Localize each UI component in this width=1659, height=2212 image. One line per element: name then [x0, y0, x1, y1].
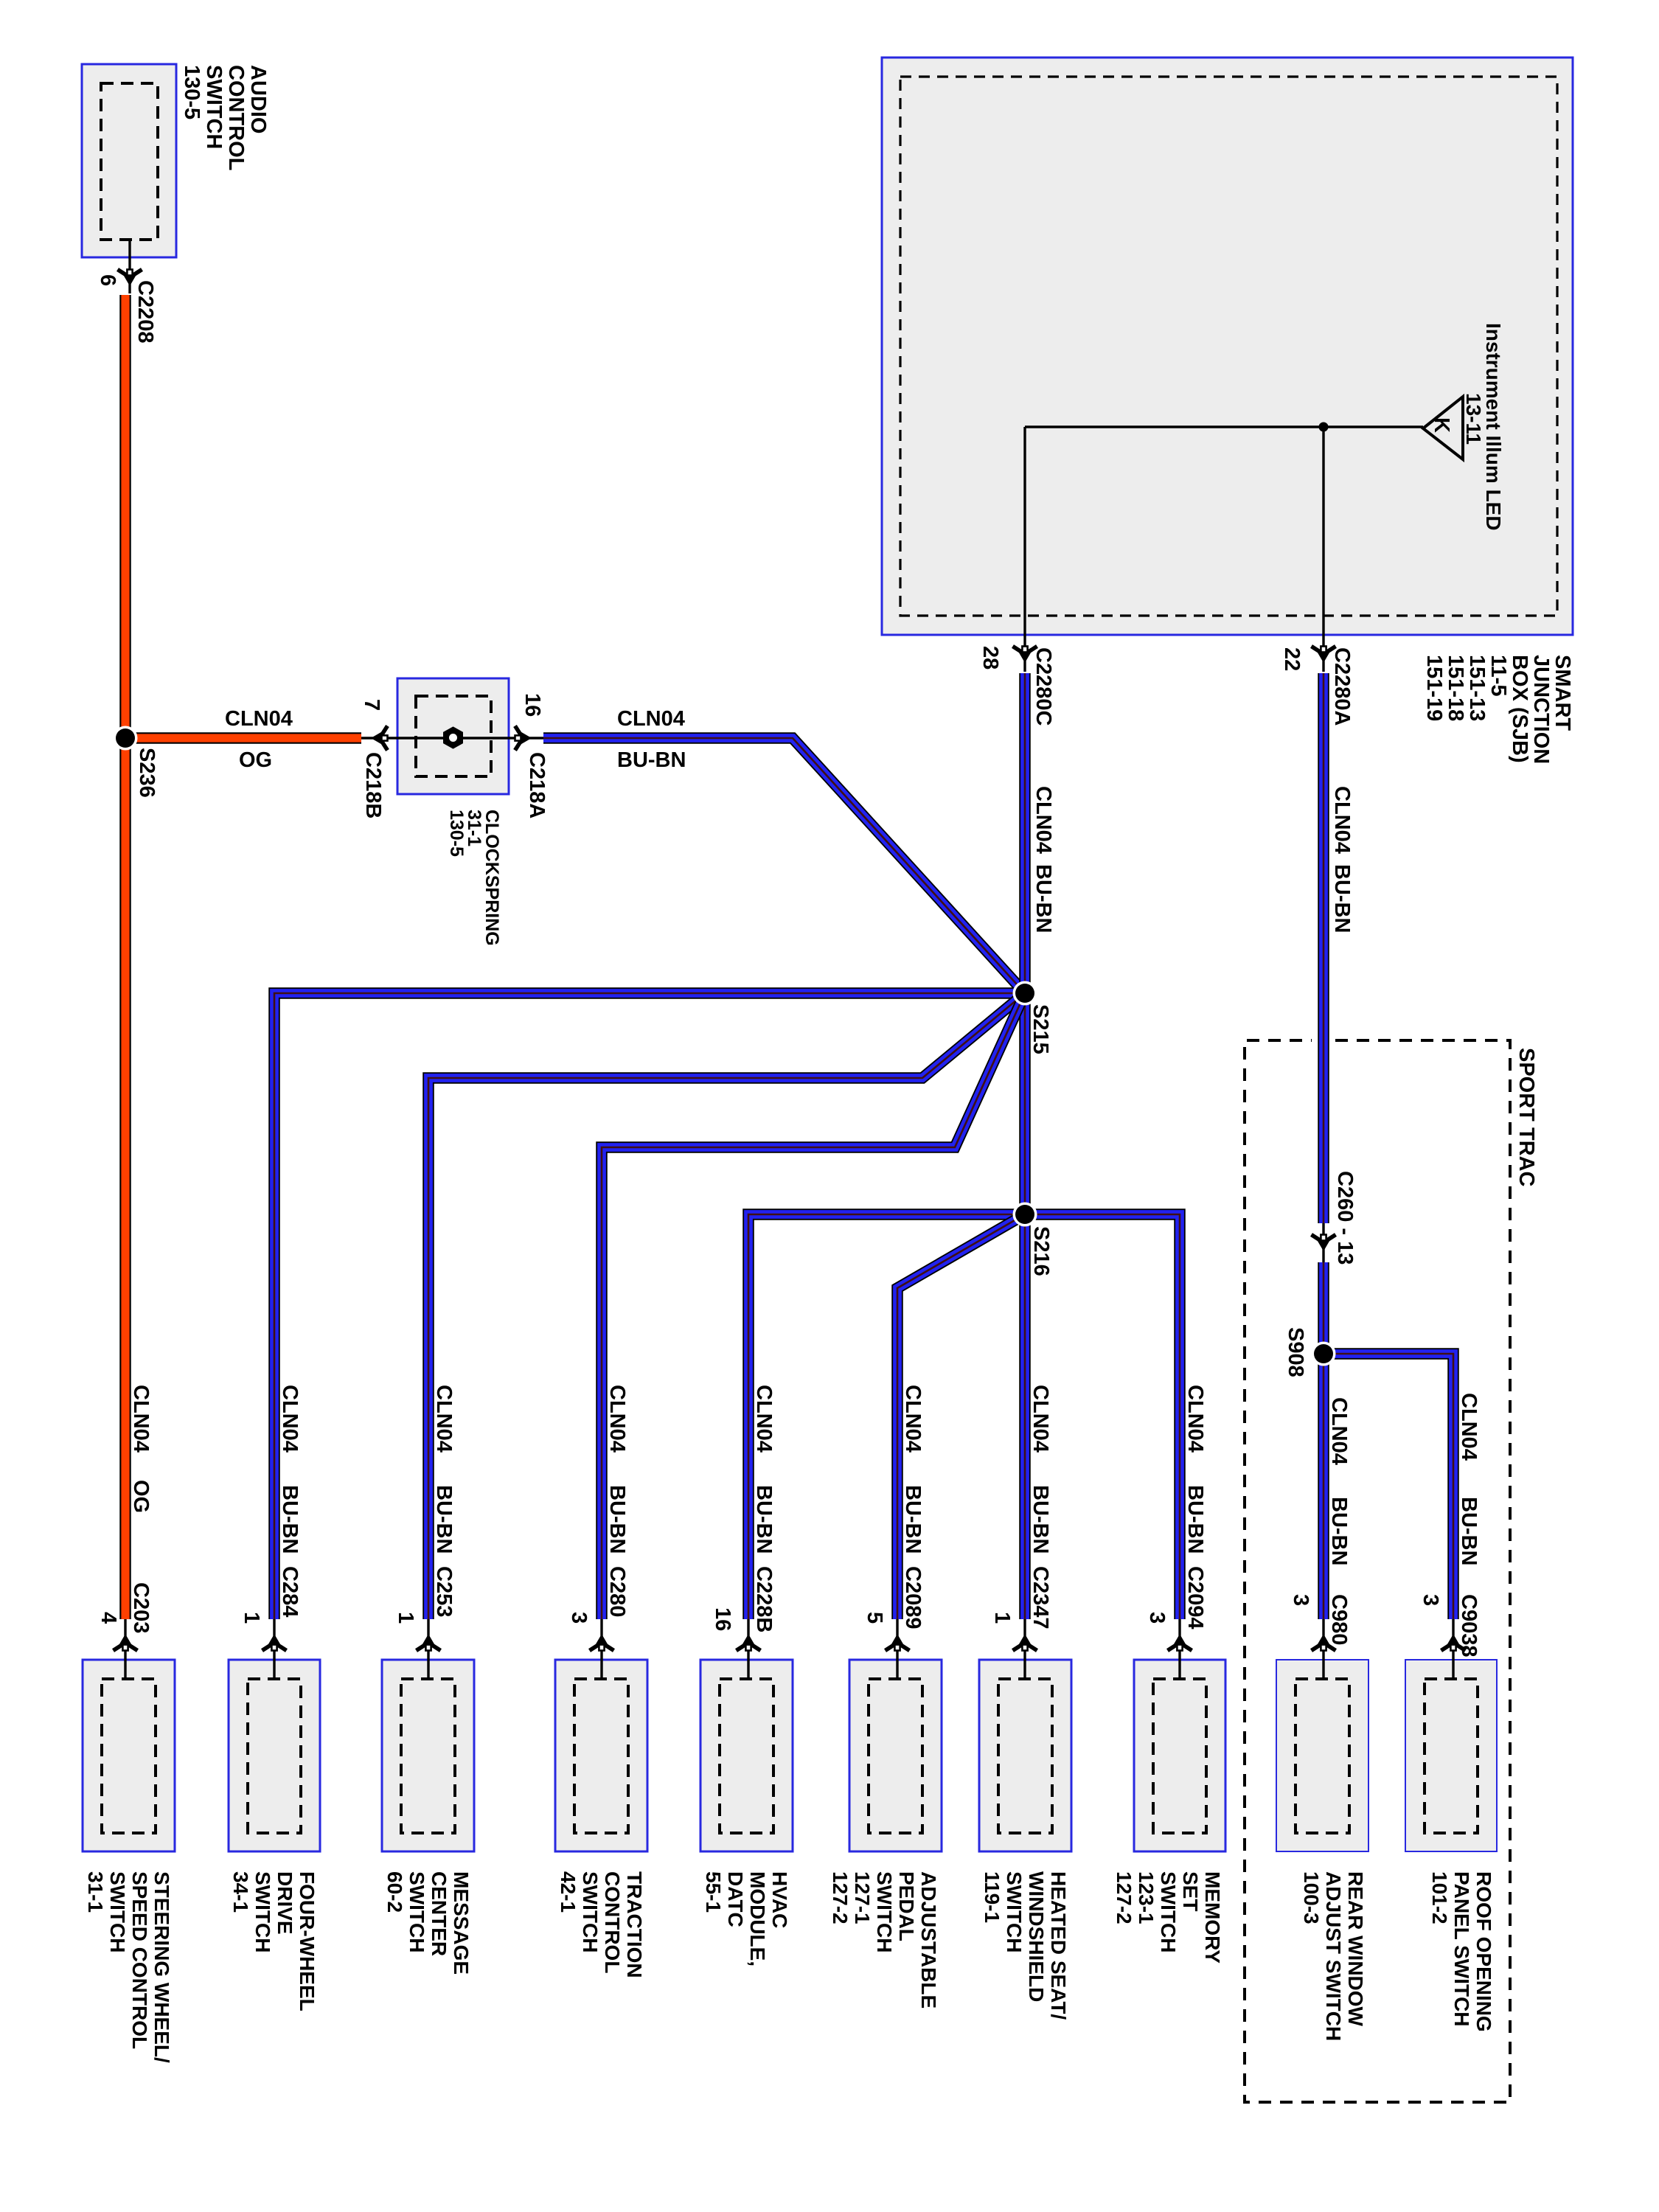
svg-text:C218B: C218B: [361, 752, 385, 818]
component box: CLOCKSPRING: [397, 678, 509, 794]
component box: MEMORY SET SWITCH: [1134, 1660, 1225, 1851]
svg-text:C2280A: C2280A: [1330, 647, 1354, 726]
svg-text:16: 16: [521, 693, 544, 717]
svg-text:SWITCH: SWITCH: [1157, 1871, 1180, 1952]
SPORT TRAC dashed boundary: [1245, 1040, 1510, 2102]
svg-text:101-2: 101-2: [1428, 1871, 1451, 1924]
connector arrow C2089: [886, 1636, 910, 1651]
svg-text:119-1: 119-1: [981, 1871, 1004, 1923]
svg-text:C980: C980: [1327, 1594, 1351, 1645]
svg-text:PANEL SWITCH: PANEL SWITCH: [1450, 1871, 1473, 2027]
svg-text:JUNCTION: JUNCTION: [1529, 655, 1553, 764]
svg-text:127-2: 127-2: [1113, 1871, 1135, 1924]
svg-text:123-1: 123-1: [1135, 1871, 1158, 1924]
svg-text:151-18: 151-18: [1444, 655, 1467, 721]
wire: SJB internal drop to C2280C: [1023, 427, 1026, 672]
connector arrow C2208: [118, 270, 142, 285]
splice S236: [114, 726, 138, 751]
svg-text:CLN04: CLN04: [1330, 786, 1354, 854]
svg-text:13-11: 13-11: [1462, 393, 1485, 445]
wire: SJB internal from Instrument Illum LED: [1025, 425, 1423, 428]
svg-text:C9038: C9038: [1457, 1594, 1481, 1657]
svg-text:BU-BN: BU-BN: [752, 1485, 776, 1554]
svg-text:ADJUSTABLE: ADJUSTABLE: [917, 1871, 940, 2008]
svg-text:CLN04: CLN04: [1457, 1393, 1481, 1461]
svg-text:C203: C203: [129, 1582, 153, 1633]
svg-text:CLN04: CLN04: [129, 1385, 153, 1453]
component box: REAR WINDOW ADJUST SWITCH: [1276, 1660, 1368, 1851]
svg-text:C2094: C2094: [1183, 1566, 1207, 1629]
svg-text:3: 3: [567, 1612, 591, 1624]
svg-text:C284: C284: [278, 1566, 302, 1617]
svg-text:HVAC: HVAC: [768, 1871, 791, 1928]
svg-text:1: 1: [990, 1612, 1014, 1624]
connector arrow C228B: [737, 1636, 761, 1651]
svg-text:BU-BN: BU-BN: [1183, 1485, 1207, 1554]
svg-text:CLN04: CLN04: [225, 707, 293, 731]
svg-text:C2089: C2089: [901, 1566, 925, 1629]
component box: MESSAGE CENTER SWITCH: [382, 1660, 474, 1851]
wire CLN04 BU-BN: S215 to traction control switch C280: [602, 993, 1025, 1619]
clockspring hex symbol: [444, 728, 462, 748]
wire CLN04 OG: branch S236 to clockspring C218B: [131, 732, 361, 744]
svg-text:S215: S215: [1029, 1004, 1052, 1054]
wire: lead into component box at x=1217: [896, 1619, 898, 1679]
svg-text:AUDIO: AUDIO: [246, 65, 270, 133]
svg-text:BU-BN: BU-BN: [432, 1485, 456, 1554]
wire CLN04 OG: audio control switch to steering wheel switch: [119, 295, 131, 1619]
svg-text:4: 4: [97, 1612, 120, 1624]
svg-text:OG: OG: [239, 748, 272, 772]
svg-text:C2208: C2208: [133, 280, 157, 343]
svg-text:BU-BN: BU-BN: [605, 1485, 629, 1554]
svg-text:5: 5: [863, 1612, 886, 1624]
wire: lead into component box at x=581: [427, 1619, 429, 1679]
svg-text:1: 1: [240, 1612, 263, 1624]
svg-text:CONTROL: CONTROL: [224, 65, 248, 170]
svg-text:BU-BN: BU-BN: [901, 1485, 925, 1554]
component box: SMART JUNCTION BOX (SJB): [882, 58, 1573, 635]
svg-text:CLN04: CLN04: [432, 1385, 456, 1453]
svg-text:MESSAGE: MESSAGE: [450, 1871, 473, 1975]
svg-text:7: 7: [360, 699, 383, 711]
connector arrow C218A: [515, 726, 530, 751]
svg-text:S236: S236: [135, 748, 159, 798]
svg-text:BU-BN: BU-BN: [1029, 1485, 1052, 1554]
component box: AUDIO CONTROL SWITCH: [82, 64, 176, 257]
LED symbol: Instrument Illum LED (K): [1423, 397, 1463, 459]
svg-text:MEMORY: MEMORY: [1201, 1871, 1224, 1964]
component box: STEERING WHEEL/ SPEED CONTROL SWITCH: [83, 1660, 175, 1851]
svg-text:22: 22: [1280, 647, 1304, 671]
connector arrow C218B: [373, 726, 388, 751]
component box: HEATED SEAT/WINDSHIELD SWITCH: [979, 1660, 1071, 1851]
svg-text:BU-BN: BU-BN: [278, 1485, 302, 1554]
wire: lead into component box at x=1600: [1178, 1619, 1180, 1679]
component box: ROOF OPENING PANEL SWITCH: [1405, 1660, 1497, 1851]
wire CLN04 BU-BN: S216 to memory set switch C2094: [1025, 1214, 1180, 1619]
svg-text:BU-BN: BU-BN: [1327, 1497, 1351, 1565]
svg-text:SWITCH: SWITCH: [106, 1871, 129, 1952]
svg-text:100-3: 100-3: [1300, 1871, 1323, 1924]
svg-text:16: 16: [711, 1607, 734, 1631]
svg-text:6: 6: [96, 274, 119, 286]
connector arrow C980: [1312, 1636, 1336, 1651]
wire: lead into component box at x=1390: [1023, 1619, 1026, 1679]
junction: SJB internal node: [1319, 422, 1329, 432]
svg-text:C260 - 13: C260 - 13: [1333, 1171, 1357, 1265]
svg-text:BOX (SJB): BOX (SJB): [1508, 655, 1531, 763]
svg-text:SWITCH: SWITCH: [579, 1871, 602, 1952]
svg-text:3: 3: [1145, 1612, 1169, 1624]
svg-text:MODULE,: MODULE,: [746, 1871, 769, 1966]
svg-text:CLN04: CLN04: [617, 707, 685, 731]
wire CLN04 BU-BN: SJB C2280C pin 28 bus through S215/S216 to C2347: [1019, 673, 1031, 1619]
svg-text:HEATED SEAT/: HEATED SEAT/: [1047, 1871, 1070, 2020]
svg-text:CLN04: CLN04: [901, 1385, 925, 1453]
svg-text:SWITCH: SWITCH: [406, 1871, 428, 1952]
svg-text:1: 1: [394, 1612, 417, 1624]
wire: lead into component box at x=1015: [747, 1619, 749, 1679]
svg-text:SPEED CONTROL: SPEED CONTROL: [128, 1871, 151, 2049]
wire CLN04 BU-BN: S216 to adjustable pedal switch C2089: [897, 1214, 1025, 1619]
wire: AUDIO CONTROL SWITCH pin 6 lead: [128, 240, 131, 293]
splice S215: [1013, 981, 1037, 1006]
connector arrow C260-13: [1312, 1235, 1336, 1250]
svg-text:42-1: 42-1: [557, 1871, 580, 1913]
svg-text:11-5: 11-5: [1486, 655, 1510, 696]
connector arrow C2280C: [1013, 647, 1037, 661]
svg-text:STEERING WHEEL/: STEERING WHEEL/: [150, 1871, 173, 2063]
svg-text:SPORT TRAC: SPORT TRAC: [1514, 1048, 1538, 1187]
svg-text:FOUR-WHEEL: FOUR-WHEEL: [296, 1871, 319, 2011]
svg-text:34-1: 34-1: [229, 1871, 252, 1913]
svg-text:SMART: SMART: [1551, 655, 1574, 731]
svg-text:C218A: C218A: [525, 752, 549, 818]
connector arrow C253: [417, 1636, 441, 1651]
svg-text:C228B: C228B: [752, 1566, 776, 1632]
wire CLN04 BU-BN: S215 to message center switch C253: [428, 993, 1025, 1619]
wire CLN04 BU-BN: SJB C2280A pin 22 to C260-13: [1318, 673, 1329, 1223]
svg-text:CLN04: CLN04: [752, 1385, 776, 1453]
svg-text:BU-BN: BU-BN: [1032, 864, 1055, 933]
svg-text:BU-BN: BU-BN: [1457, 1497, 1481, 1565]
svg-text:CLN04: CLN04: [1183, 1385, 1207, 1453]
wire: lead into component box at x=170: [124, 1619, 126, 1679]
svg-text:130-5: 130-5: [446, 810, 467, 857]
svg-text:S216: S216: [1029, 1226, 1053, 1276]
svg-text:SWITCH: SWITCH: [873, 1871, 896, 1952]
svg-text:SET: SET: [1179, 1871, 1202, 1911]
svg-text:SWITCH: SWITCH: [1003, 1871, 1026, 1952]
component box: TRACTION CONTROL SWITCH: [555, 1660, 647, 1851]
svg-text:ADJUST SWITCH: ADJUST SWITCH: [1322, 1871, 1345, 2041]
svg-text:60-2: 60-2: [383, 1871, 406, 1913]
svg-text:28: 28: [978, 646, 1002, 669]
svg-text:K: K: [1430, 417, 1453, 433]
svg-text:CLN04: CLN04: [605, 1385, 629, 1453]
connector arrow C2280A: [1312, 647, 1336, 661]
svg-text:55-1: 55-1: [702, 1871, 725, 1913]
svg-text:151-19: 151-19: [1422, 655, 1446, 721]
svg-text:CLN04: CLN04: [278, 1385, 302, 1453]
wire: lead into component box at x=372: [273, 1619, 275, 1679]
svg-text:SWITCH: SWITCH: [251, 1871, 274, 1952]
svg-text:S908: S908: [1284, 1327, 1307, 1377]
svg-text:SWITCH: SWITCH: [202, 65, 226, 149]
svg-text:DRIVE: DRIVE: [274, 1871, 296, 1935]
connector arrow C9038: [1441, 1636, 1466, 1651]
connector arrow C280: [590, 1636, 614, 1651]
svg-text:127-2: 127-2: [829, 1871, 852, 1924]
svg-text:CONTROL: CONTROL: [601, 1871, 624, 1973]
wire: C260-13 in-line connector gap lead: [1322, 1223, 1324, 1262]
svg-text:151-13: 151-13: [1465, 655, 1489, 721]
splice S908: [1312, 1342, 1336, 1366]
svg-text:DATC: DATC: [724, 1871, 747, 1927]
svg-text:3: 3: [1419, 1594, 1442, 1606]
wire: clockspring through-lead: [361, 737, 543, 739]
wire CLN04 BU-BN: S216 to HVAC module C228B: [748, 1214, 1025, 1619]
connector arrow C2347: [1013, 1636, 1037, 1651]
wire: lead into component box at x=816: [600, 1619, 602, 1679]
svg-text:31-1: 31-1: [84, 1871, 107, 1913]
svg-text:BU-BN: BU-BN: [617, 748, 686, 772]
svg-text:OG: OG: [129, 1480, 153, 1513]
svg-text:127-1: 127-1: [851, 1871, 874, 1924]
wire: lead into component box at x=1795: [1322, 1619, 1324, 1679]
component box: HVAC MODULE DATC: [700, 1660, 793, 1851]
svg-text:3: 3: [1289, 1594, 1312, 1606]
svg-text:CLN04: CLN04: [1327, 1397, 1351, 1465]
svg-text:PEDAL: PEDAL: [895, 1871, 918, 1941]
svg-text:130-5: 130-5: [180, 65, 204, 119]
svg-text:CLN04: CLN04: [1029, 1385, 1052, 1453]
wire: SJB internal drop to C2280A: [1322, 427, 1324, 672]
svg-text:C280: C280: [605, 1566, 629, 1617]
component box: ADJUSTABLE PEDAL SWITCH: [849, 1660, 942, 1851]
svg-text:CLN04: CLN04: [1032, 786, 1055, 854]
svg-text:WINDSHIELD: WINDSHIELD: [1025, 1871, 1048, 2002]
connector arrow C203: [114, 1636, 138, 1651]
svg-text:TRACTION: TRACTION: [623, 1871, 646, 1978]
connector arrow C284: [262, 1636, 287, 1651]
wire CLN04 BU-BN: S908 to roof opening panel switch C9038: [1324, 1354, 1453, 1619]
component box: FOUR-WHEEL DRIVE SWITCH: [229, 1660, 320, 1851]
svg-text:BU-BN: BU-BN: [1330, 864, 1354, 933]
connector arrow C2094: [1168, 1636, 1192, 1651]
wire CLN04 BU-BN: S215 to four-wheel drive switch C284: [274, 993, 1025, 1619]
svg-text:C2347: C2347: [1029, 1566, 1052, 1629]
wire CLN04 BU-BN: clockspring C218A to S215: [543, 738, 1025, 993]
svg-text:REAR WINDOW: REAR WINDOW: [1344, 1871, 1367, 2027]
svg-text:ROOF OPENING: ROOF OPENING: [1472, 1871, 1495, 2032]
svg-text:C253: C253: [432, 1566, 456, 1617]
svg-text:C2280C: C2280C: [1032, 647, 1055, 726]
wire CLN04 BU-BN: C260-13 through S908 to C980: [1318, 1262, 1329, 1619]
wire: lead into component box at x=1971: [1452, 1619, 1454, 1679]
svg-text:CENTER: CENTER: [428, 1871, 451, 1956]
splice S216: [1013, 1203, 1037, 1227]
